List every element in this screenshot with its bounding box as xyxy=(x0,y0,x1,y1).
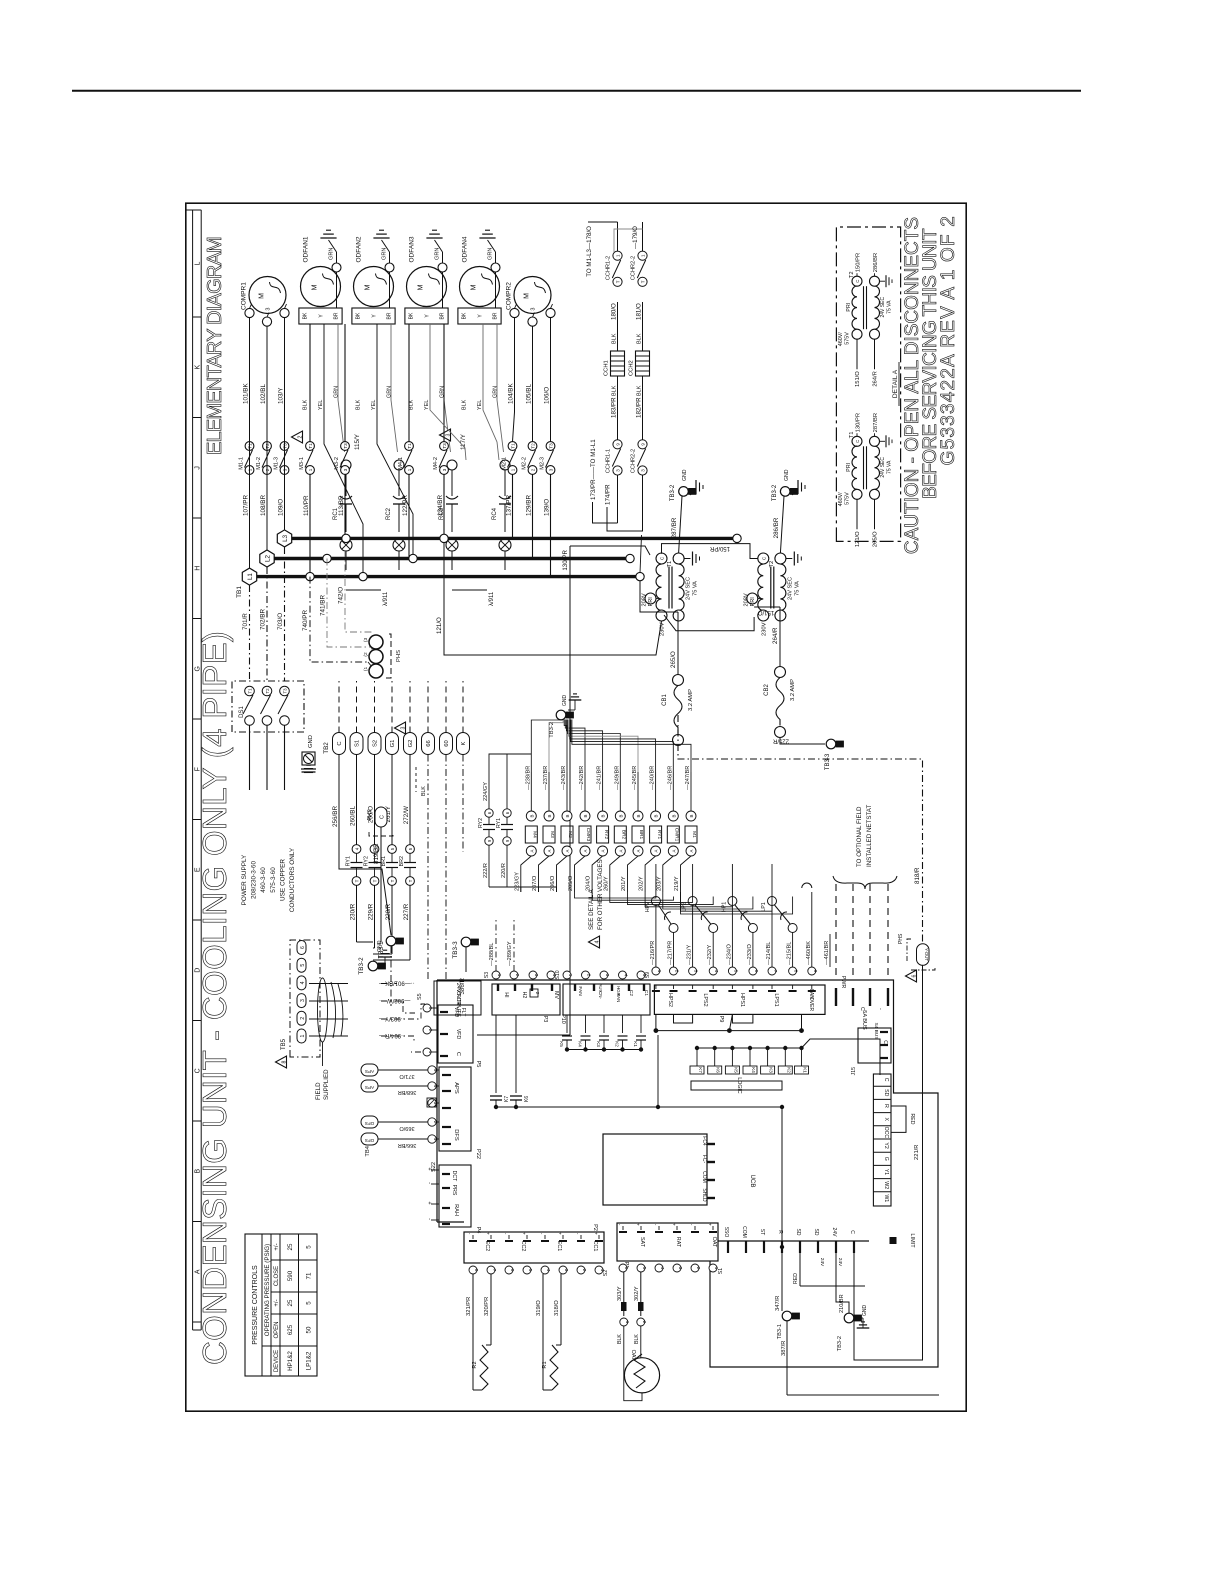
svg-text:—237/BR: —237/BR xyxy=(543,766,549,790)
svg-text:+: + xyxy=(522,1232,527,1235)
P5 pin xyxy=(431,1051,437,1053)
svg-text:208V: 208V xyxy=(642,593,648,606)
svg-text:+/-: +/- xyxy=(274,1299,280,1306)
svg-text:1: 1 xyxy=(497,974,502,977)
svg-text:M2-1: M2-1 xyxy=(502,457,508,470)
wire label 461/BR xyxy=(829,934,831,967)
contactor contact M1-2 xyxy=(263,442,272,451)
svg-text:FAN: FAN xyxy=(616,994,621,1003)
wire label 231/Y xyxy=(692,934,694,967)
svg-text:7: 7 xyxy=(492,1269,497,1272)
P10 pin bar xyxy=(628,985,630,992)
svg-text:B: B xyxy=(689,814,694,817)
svg-text:9: 9 xyxy=(813,970,818,973)
svg-text:—245/BR: —245/BR xyxy=(632,766,638,790)
svg-text:208V: 208V xyxy=(743,593,749,606)
svg-text:TB3-3: TB3-3 xyxy=(825,753,831,770)
tap wires 740/PR 741/BR 742/O to PHS xyxy=(310,577,368,662)
svg-text:220/R: 220/R xyxy=(501,863,507,878)
svg-text:2: 2 xyxy=(675,970,680,973)
svg-text:5: 5 xyxy=(306,1245,313,1249)
PHS C pigtail xyxy=(375,807,387,827)
svg-text:K2: K2 xyxy=(786,1067,791,1073)
coil M1 top wire xyxy=(690,772,692,811)
svg-text:121/O: 121/O xyxy=(855,531,861,547)
field wire 701/R xyxy=(249,585,251,681)
svg-text:75 VA: 75 VA xyxy=(693,581,699,596)
svg-text:H: H xyxy=(195,566,202,571)
svg-text:S4 BUS: S4 BUS xyxy=(873,1022,879,1039)
coil BR2 top wire xyxy=(619,772,621,811)
svg-text:3: 3 xyxy=(678,1267,683,1270)
detail A transformer T1 xyxy=(852,436,862,446)
wire ODFAN4 BLK xyxy=(443,324,445,442)
zone tick xyxy=(193,1020,202,1022)
svg-text:701/R: 701/R xyxy=(242,613,249,630)
svg-text:740/PR: 740/PR xyxy=(302,610,309,631)
wire 130/PR to T1 primary xyxy=(570,546,650,555)
K5-K1 rail xyxy=(567,1049,641,1051)
svg-text:CCHR2-2: CCHR2-2 xyxy=(631,256,637,280)
pressure switch HP2 xyxy=(651,897,660,906)
svg-text:L2: L2 xyxy=(264,555,271,562)
svg-text:223/GY: 223/GY xyxy=(514,872,520,891)
svg-text:R2: R2 xyxy=(472,1361,478,1368)
contactor contact M3-1 xyxy=(306,442,315,451)
svg-text:7: 7 xyxy=(773,970,778,973)
svg-text:K7: K7 xyxy=(698,1067,703,1073)
svg-text:B: B xyxy=(583,814,588,817)
svg-text:+: + xyxy=(486,1232,491,1235)
svg-text:104/BK: 104/BK xyxy=(508,383,515,404)
svg-text:—460/BK: —460/BK xyxy=(806,941,812,965)
svg-text:LPS2: LPS2 xyxy=(702,993,708,1006)
svg-text:1: 1 xyxy=(300,1034,306,1037)
svg-text:210/BR: 210/BR xyxy=(839,1294,845,1313)
coil M2 top wire xyxy=(566,772,568,811)
svg-text:+: + xyxy=(558,1232,563,1235)
relay coil CMR3 xyxy=(580,811,590,821)
pressure switch LP2 xyxy=(688,897,697,906)
svg-text:T: T xyxy=(390,879,395,882)
terminal X xyxy=(873,1112,891,1114)
svg-text:3: 3 xyxy=(564,1269,569,1272)
pressure switch HP1 xyxy=(728,897,737,906)
J15 pin bar xyxy=(880,1031,888,1033)
CCH row B left jog 174/PR xyxy=(607,475,643,531)
svg-text:347/R: 347/R xyxy=(775,1296,781,1311)
svg-text:575V: 575V xyxy=(845,492,851,505)
svg-text:CMR3: CMR3 xyxy=(585,828,591,842)
svg-text:1: 1 xyxy=(568,974,573,977)
svg-text:204/O: 204/O xyxy=(586,875,592,891)
svg-text:371/O: 371/O xyxy=(399,1073,415,1079)
P22 pin 4 xyxy=(428,1082,436,1090)
connector P5 box xyxy=(438,1005,473,1063)
netstat pin bar xyxy=(869,988,871,1006)
TB3-1 field dash-dot xyxy=(390,946,392,1006)
svg-text:121/O: 121/O xyxy=(436,617,443,634)
P9 common rail xyxy=(656,1030,802,1032)
wire xyxy=(374,755,376,846)
svg-text:FC4: FC4 xyxy=(701,1136,707,1146)
svg-text:HP1&2: HP1&2 xyxy=(287,1351,294,1371)
svg-text:BK: BK xyxy=(356,312,362,319)
svg-text:GRN: GRN xyxy=(435,248,441,260)
UCB pin FC4 xyxy=(707,1143,715,1145)
terminal R xyxy=(873,1098,891,1100)
svg-text:—238/BR: —238/BR xyxy=(525,766,531,790)
svg-text:P5: P5 xyxy=(475,1061,481,1068)
freeze switch OFS 366/BR xyxy=(361,1133,378,1145)
svg-text:183/PR: 183/PR xyxy=(611,397,618,418)
svg-text:··903/Y—: ··903/Y— xyxy=(379,1015,405,1021)
conductor 901/BK xyxy=(309,983,348,985)
svg-text:208/230-3-60: 208/230-3-60 xyxy=(251,861,258,899)
coil RY1 top wire xyxy=(655,772,657,811)
P1 pin xyxy=(712,1226,714,1230)
svg-text:YEL: YEL xyxy=(318,400,324,410)
svg-text:T3: T3 xyxy=(343,443,348,449)
svg-text:RY1: RY1 xyxy=(496,818,502,828)
svg-text:T: T xyxy=(640,280,645,283)
svg-text:K5: K5 xyxy=(559,1041,564,1047)
wire ODFAN1 BLK xyxy=(309,324,311,442)
coil M1 bottom wire xyxy=(681,856,692,892)
wire 289/GY xyxy=(513,920,515,971)
wire label 232/Y xyxy=(712,934,714,967)
svg-text:GRN: GRN xyxy=(382,248,388,260)
pressure switch APS 371/O xyxy=(361,1064,378,1076)
svg-text:COMPR1: COMPR1 xyxy=(241,282,248,310)
svg-text:OPEN: OPEN xyxy=(274,1321,280,1338)
capacitor K4 xyxy=(585,1015,587,1033)
zone tick xyxy=(193,1221,202,1223)
svg-text:PRI: PRI xyxy=(846,303,852,312)
coil RY2 top wire xyxy=(602,772,604,811)
P9 pin bar xyxy=(752,985,754,989)
svg-text:101/BK: 101/BK xyxy=(243,383,250,404)
warning triangle 3 xyxy=(440,429,451,441)
P1 pin xyxy=(622,1226,624,1230)
TB3-2 stud xfmr2 xyxy=(780,487,790,497)
svg-text:EC1: EC1 xyxy=(556,1241,562,1252)
svg-text:6: 6 xyxy=(754,970,759,973)
svg-text:103/Y: 103/Y xyxy=(278,387,285,404)
netstat brace xyxy=(833,876,897,889)
RY contacts 6-9 small xyxy=(485,809,493,817)
svg-text:GND: GND xyxy=(682,469,688,481)
relay coil RY2 xyxy=(598,811,608,821)
wire label 217/PR xyxy=(673,934,675,967)
wire COMPR2 branch 3 xyxy=(550,318,552,442)
svg-text:-: - xyxy=(426,1218,432,1220)
svg-text:TB3-1: TB3-1 xyxy=(777,1324,783,1339)
PHS Y-OUT plug xyxy=(917,944,930,966)
svg-text:318/O: 318/O xyxy=(554,1300,560,1316)
svg-text:24V SEC: 24V SEC xyxy=(880,457,886,478)
netstat pin bar xyxy=(887,988,889,1006)
svg-text:K1: K1 xyxy=(633,1041,638,1047)
svg-text:+: + xyxy=(636,1223,641,1226)
PHS plug xyxy=(369,664,383,678)
board pin R xyxy=(781,1241,783,1253)
contactor contact M3-2 xyxy=(341,442,350,451)
zone tick xyxy=(193,718,202,720)
svg-text:TB3-1: TB3-1 xyxy=(378,941,385,959)
P4 pin xyxy=(431,1203,439,1205)
svg-text:COM: COM xyxy=(741,1226,747,1238)
svg-text:369/O: 369/O xyxy=(399,1125,415,1131)
control box outline xyxy=(436,980,438,1222)
svg-text:BLK: BLK xyxy=(421,786,427,796)
zone tick xyxy=(193,618,202,620)
wire M2 contact feeds xyxy=(512,474,514,538)
svg-text:139/O: 139/O xyxy=(544,499,551,516)
ODFAN2 ground symbol xyxy=(373,237,389,239)
board pin COM xyxy=(745,1241,747,1253)
P9 pin bar xyxy=(771,985,773,989)
svg-text:—243/BR: —243/BR xyxy=(561,766,567,790)
svg-text:RY1: RY1 xyxy=(656,830,662,840)
wire COMPR2 branch 2 xyxy=(532,326,534,441)
svg-text:66: 66 xyxy=(426,740,432,746)
main control board UCB xyxy=(603,1134,707,1205)
svg-text:TB3-2: TB3-2 xyxy=(837,1336,843,1351)
svg-text:—217/PR: —217/PR xyxy=(668,941,674,965)
TB3-2 stud bottom xyxy=(844,1313,854,1323)
TB5 terminal 2 xyxy=(297,1011,306,1025)
svg-text:264/R: 264/R xyxy=(772,627,779,644)
bus TB1 L2 xyxy=(260,550,274,567)
cable lead xyxy=(322,1042,324,1066)
svg-text:HI: HI xyxy=(503,992,509,997)
capacitor K1 xyxy=(640,1015,642,1033)
wire ODFAN2 BLK xyxy=(344,324,346,442)
svg-text:OVER: OVER xyxy=(808,997,814,1012)
P9 pin bar xyxy=(811,985,813,989)
RY1 9 wire down xyxy=(506,845,508,887)
svg-text:GRN: GRN xyxy=(387,386,393,398)
svg-text:P2: P2 xyxy=(592,1224,598,1231)
ODFAN1 terminal box xyxy=(299,308,342,324)
J15 pin bar xyxy=(880,1044,888,1046)
svg-text:DETAIL A: DETAIL A xyxy=(892,369,899,398)
T1 det labels xyxy=(856,499,858,529)
svg-text:219/Y: 219/Y xyxy=(674,876,680,891)
LIMIT jumper xyxy=(890,1237,897,1244)
netstat dashed leads xyxy=(835,884,837,978)
svg-text:X: X xyxy=(883,1117,889,1121)
coil CMR1 bottom wire xyxy=(663,856,674,892)
svg-text:K3: K3 xyxy=(769,1067,774,1073)
svg-text:-: - xyxy=(877,1008,883,1010)
limit loop wire xyxy=(787,1394,939,1396)
long wire 130/PR down to P3 xyxy=(569,546,571,1035)
P3 pin bar xyxy=(514,984,516,989)
dash wire from G2 triangle xyxy=(415,767,417,792)
svg-text:CCHR1-1: CCHR1-1 xyxy=(606,449,612,473)
capacitor K2 xyxy=(622,1015,624,1033)
UCB pin SHLD xyxy=(707,1197,715,1199)
P5 pin xyxy=(431,1029,437,1031)
svg-text:GND: GND xyxy=(562,695,568,707)
svg-text:BR1: BR1 xyxy=(638,830,644,840)
svg-text:EC2: EC2 xyxy=(484,1241,490,1252)
contact BR1 xyxy=(388,845,397,854)
svg-text:BLK: BLK xyxy=(634,1334,640,1344)
svg-text:75 VA: 75 VA xyxy=(887,300,893,314)
svg-text:S2: S2 xyxy=(373,740,379,747)
coil RY1 bottom wire xyxy=(645,856,656,892)
svg-text:A: A xyxy=(689,849,694,852)
svg-text:8: 8 xyxy=(474,1269,479,1272)
TB5 terminal 1 xyxy=(297,1029,306,1043)
svg-text:LP1&2: LP1&2 xyxy=(306,1351,313,1370)
svg-text:B: B xyxy=(618,814,623,817)
svg-text:BR2: BR2 xyxy=(399,856,405,867)
svg-text:227/R: 227/R xyxy=(403,903,410,920)
conductor dash-dot tails xyxy=(381,983,397,985)
P4 pin xyxy=(431,1169,439,1171)
svg-text:—242/BR: —242/BR xyxy=(579,766,585,790)
svg-text:R: R xyxy=(883,1104,889,1108)
zone tick xyxy=(193,209,202,211)
svg-text:S2: S2 xyxy=(603,1270,609,1276)
svg-text:3: 3 xyxy=(445,433,451,436)
wire label 233/O xyxy=(752,934,754,967)
svg-text:λ/911: λ/911 xyxy=(383,591,389,606)
DS1 line side wire xyxy=(266,725,268,755)
svg-text:T3: T3 xyxy=(549,443,554,449)
terminal W1 xyxy=(873,1191,891,1193)
svg-text:A: A xyxy=(636,849,641,852)
svg-text:GND: GND xyxy=(308,735,314,748)
svg-text:M: M xyxy=(365,284,372,290)
svg-text:SSO: SSO xyxy=(723,1227,729,1238)
svg-text:4: 4 xyxy=(546,1269,551,1272)
wire COMPR2 branch 1 xyxy=(513,318,515,442)
C-pill long wire down to TB3-1 xyxy=(339,845,391,935)
svg-text:265/O: 265/O xyxy=(873,531,879,547)
DS1 pole xyxy=(280,686,290,696)
TB3-2 stud xfmr1 xyxy=(679,487,689,497)
svg-text:T: T xyxy=(372,879,377,882)
svg-text:A: A xyxy=(529,849,534,852)
S3 pin circles xyxy=(492,971,500,979)
TB5 terminal 3 xyxy=(297,994,306,1008)
wire 121/O bus to T1 primary xyxy=(444,542,662,655)
relay coil M2 xyxy=(562,811,572,821)
motor ODFAN1 xyxy=(301,267,341,307)
TB5 terminal 4 xyxy=(297,976,306,990)
svg-text:5: 5 xyxy=(300,964,306,967)
P2 pin xyxy=(580,1235,582,1239)
connector J15 box xyxy=(858,1028,891,1063)
svg-text:207/O: 207/O xyxy=(532,875,538,891)
svg-text:818/R: 818/R xyxy=(914,867,921,884)
svg-text:M: M xyxy=(418,284,425,290)
svg-text:4: 4 xyxy=(660,1267,665,1270)
TB2 terminal 60 xyxy=(440,733,453,755)
RY2 9 wire down xyxy=(488,845,490,887)
svg-text:G: G xyxy=(883,1157,889,1161)
svg-text:CCH1: CCH1 xyxy=(604,360,610,376)
relay coil M4 xyxy=(526,811,536,821)
sensor OAT xyxy=(624,1358,659,1393)
svg-text:—246/BR: —246/BR xyxy=(667,766,673,790)
svg-text:224/GY: 224/GY xyxy=(483,782,489,801)
zone tick xyxy=(193,819,202,821)
svg-text:APS: APS xyxy=(365,1069,374,1074)
svg-text:2: 2 xyxy=(428,1029,433,1032)
svg-text:575-3-60: 575-3-60 xyxy=(270,867,277,893)
contactor contact M2-2 xyxy=(528,442,537,451)
LOGIC box xyxy=(691,1081,782,1090)
wire SD RED xyxy=(799,1253,801,1286)
svg-text:ODFAN3: ODFAN3 xyxy=(409,236,416,262)
svg-text:P10: P10 xyxy=(560,1014,566,1024)
svg-text:TB3-2: TB3-2 xyxy=(772,484,778,501)
TB2 66 60 K field wires xyxy=(427,755,429,982)
svg-text:CONDUCTORS ONLY: CONDUCTORS ONLY xyxy=(289,847,296,912)
connector P10 box xyxy=(563,984,650,1015)
svg-text:8: 8 xyxy=(281,1060,287,1063)
heater CCH1 xyxy=(617,376,619,440)
svg-text:W2: W2 xyxy=(883,1181,889,1189)
svg-text:DEVICE: DEVICE xyxy=(274,1350,280,1372)
svg-text:Y: Y xyxy=(319,314,325,318)
svg-text:24V SEC: 24V SEC xyxy=(880,297,886,318)
motor COMPR1 xyxy=(249,277,286,314)
svg-text:1: 1 xyxy=(511,468,516,471)
motor ODFAN3 xyxy=(407,267,447,307)
TB2 terminal G1 xyxy=(386,733,399,755)
bus junction dots xyxy=(306,572,314,580)
svg-text:105/BL: 105/BL xyxy=(526,384,533,404)
ground screw bars xyxy=(301,768,316,770)
coil RY2 bottom wire xyxy=(592,856,603,892)
zone tick xyxy=(193,316,202,318)
svg-text:50: 50 xyxy=(306,1326,313,1333)
svg-text:6: 6 xyxy=(911,974,917,977)
P5 pin xyxy=(431,1007,437,1009)
svg-text:387/R: 387/R xyxy=(781,1341,787,1356)
svg-text:L3: L3 xyxy=(282,534,289,541)
wire 265/O xyxy=(677,612,679,675)
P2 pin xyxy=(508,1235,510,1239)
svg-text:2: 2 xyxy=(582,1269,587,1272)
svg-text:260/Y: 260/Y xyxy=(603,876,609,891)
bus TB1 L1 xyxy=(249,568,251,577)
svg-text:129/BR: 129/BR xyxy=(526,495,533,516)
svg-text:137/PR: 137/PR xyxy=(506,495,513,516)
svg-text:PHS: PHS xyxy=(367,809,373,820)
capacitor K5 xyxy=(566,1015,568,1033)
wire 286/BR T2 sec to TB3-2 xyxy=(780,496,784,553)
svg-text:BR: BR xyxy=(387,312,393,319)
svg-text:K6: K6 xyxy=(524,1096,530,1102)
ODFAN4 ground wire xyxy=(495,272,497,308)
TB2 terminal S1 xyxy=(350,733,363,755)
svg-text:Y2: Y2 xyxy=(883,1142,889,1148)
ODFAN4 ground symbol xyxy=(479,237,495,239)
RED jumper loop xyxy=(891,1106,906,1132)
zone tick xyxy=(193,417,202,419)
TB2 terminal S2 xyxy=(368,733,381,755)
svg-text:YEL: YEL xyxy=(371,400,377,410)
svg-text:T3: T3 xyxy=(442,443,447,449)
